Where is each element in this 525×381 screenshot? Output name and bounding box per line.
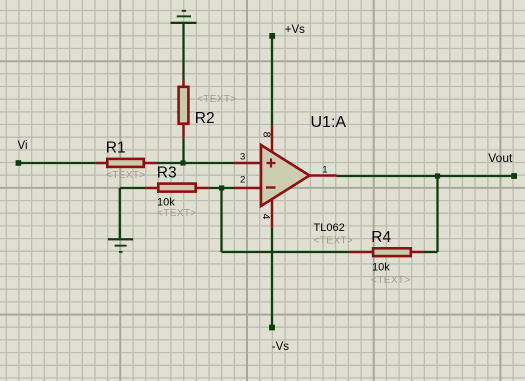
svg-text:-Vs: -Vs — [272, 341, 290, 353]
svg-text:<TEXT>: <TEXT> — [371, 275, 411, 286]
wire R3 to op-amp pin2 row — [210, 187, 235, 189]
resistor R3 lead left — [145, 187, 158, 190]
terminal node -Vs — [269, 325, 275, 331]
wire pin4 to -Vs — [271, 228, 273, 327]
resistor R1 lead left — [96, 162, 107, 165]
junction node at R2 bottom — [180, 160, 185, 165]
svg-text:TL062: TL062 — [314, 222, 345, 234]
wire corner to R4 right lead — [424, 251, 438, 253]
svg-text:Vout: Vout — [488, 151, 513, 165]
svg-text:+Vs: +Vs — [285, 24, 305, 36]
resistor R4 lead right — [411, 251, 424, 254]
svg-text:R4: R4 — [371, 229, 391, 246]
terminal node +Vs — [269, 33, 275, 39]
junction node output/feedback — [435, 173, 440, 178]
junction node feedback tap — [219, 185, 224, 190]
op-amp U1 body triangle — [261, 145, 310, 206]
svg-text:<TEXT>: <TEXT> — [314, 236, 354, 247]
ground bottom — [108, 238, 133, 253]
wire feedback up to pin2 junction — [220, 188, 222, 252]
svg-text:U1:A: U1:A — [311, 114, 347, 131]
wire feedback bottom to left — [222, 251, 350, 253]
terminal node Vi — [16, 160, 22, 166]
resistor R4 lead left — [350, 251, 374, 254]
svg-text:Vi: Vi — [18, 140, 28, 152]
svg-text:10k: 10k — [157, 196, 175, 208]
svg-text:R1: R1 — [106, 140, 126, 157]
wire junction down to R4 row — [436, 176, 438, 252]
op-amp U1 pin2 lead — [234, 187, 260, 190]
resistor R3 lead right — [196, 187, 210, 190]
wire R1 to op-amp pin3 row — [157, 162, 234, 164]
svg-text:3: 3 — [240, 151, 245, 162]
svg-text:8: 8 — [260, 132, 272, 138]
svg-text:R2: R2 — [195, 110, 215, 127]
wire output to Vout — [337, 175, 515, 177]
wire input Vi to R1 — [18, 162, 95, 164]
op-amp minus marking — [266, 186, 276, 188]
resistor R1 lead right — [144, 162, 157, 165]
svg-text:<TEXT>: <TEXT> — [197, 94, 237, 105]
svg-text:R3: R3 — [157, 165, 177, 182]
wire R2 to junction — [182, 138, 184, 163]
op-amp pin1 output lead — [310, 174, 337, 177]
svg-text:4: 4 — [260, 214, 272, 220]
wire riser to lower ground — [119, 188, 121, 239]
svg-text:1: 1 — [322, 164, 327, 175]
op-amp pin8 lead — [271, 126, 274, 153]
resistor R2 lead bottom — [182, 124, 185, 138]
op-amp plus marking — [267, 159, 276, 168]
svg-text:<TEXT>: <TEXT> — [157, 208, 197, 219]
wire ground to R2 — [182, 23, 184, 80]
terminal node Vout — [511, 173, 517, 179]
svg-text:2: 2 — [240, 175, 245, 186]
op-amp U1 pin3 lead — [234, 162, 260, 165]
resistor R4 body — [373, 248, 411, 256]
svg-text:10k: 10k — [372, 261, 390, 273]
op-amp pin4 lead — [271, 199, 274, 228]
resistor R2 lead top — [182, 79, 185, 87]
wire R3 left from ground riser — [120, 187, 145, 189]
svg-text:<TEXT>: <TEXT> — [106, 170, 146, 181]
resistor R1 body — [107, 159, 143, 167]
resistor R2 body — [179, 87, 189, 124]
resistor R3 body — [158, 184, 195, 192]
wire +Vs to pin8 — [271, 37, 273, 126]
ground top — [171, 10, 197, 24]
